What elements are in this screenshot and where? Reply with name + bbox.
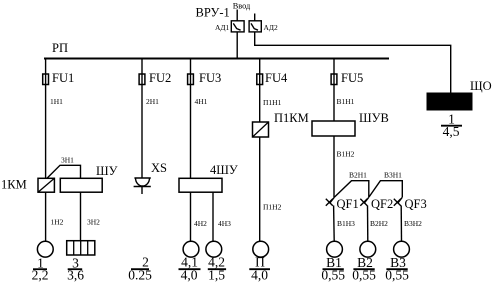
svg-text:ЩО: ЩО xyxy=(470,79,492,93)
svg-text:П1Н2: П1Н2 xyxy=(263,203,282,212)
svg-text:4,5: 4,5 xyxy=(443,124,460,139)
svg-text:FU3: FU3 xyxy=(199,71,221,85)
breaker АД1 xyxy=(231,21,244,32)
svg-text:FU4: FU4 xyxy=(265,71,288,85)
wire branch В2Н1 xyxy=(334,181,369,198)
svg-text:П1КМ: П1КМ xyxy=(274,111,309,125)
contactor П1КМ xyxy=(253,122,269,137)
contactor 1КМ xyxy=(38,178,54,192)
wire QF3 to motor В3 xyxy=(400,206,402,242)
svg-text:1Н2: 1Н2 xyxy=(51,218,64,227)
svg-text:FU5: FU5 xyxy=(341,71,363,85)
svg-text:3Н2: 3Н2 xyxy=(87,218,100,227)
svg-text:0.25: 0.25 xyxy=(128,268,152,283)
breaker АД2 xyxy=(249,21,261,32)
svg-text:1КМ: 1КМ xyxy=(1,178,27,192)
svg-text:ВРУ-1: ВРУ-1 xyxy=(196,6,230,20)
box ШУВ xyxy=(312,121,355,136)
svg-text:FU2: FU2 xyxy=(149,71,171,85)
svg-text:0,55: 0,55 xyxy=(321,268,345,283)
wire FU3 branch xyxy=(190,59,192,179)
svg-text:0,55: 0,55 xyxy=(385,268,409,283)
svg-text:В2Н1: В2Н1 xyxy=(349,171,367,180)
wire QF2 to motor В2 xyxy=(367,206,369,242)
wire ШУВ output В1Н2 xyxy=(333,136,335,197)
motor 4.1 xyxy=(183,241,199,257)
svg-text:4,0: 4,0 xyxy=(251,268,268,283)
fuse FU5 xyxy=(331,74,337,85)
label rating 1/2,2 xyxy=(32,255,49,282)
svg-text:1Н1: 1Н1 xyxy=(50,97,63,106)
svg-text:QF2: QF2 xyxy=(371,197,393,211)
wire АД1 to bus РП xyxy=(236,32,238,59)
svg-text:QF1: QF1 xyxy=(337,197,359,211)
svg-text:4Н1: 4Н1 xyxy=(195,97,208,106)
svg-text:АД2: АД2 xyxy=(264,23,279,32)
svg-text:1,5: 1,5 xyxy=(208,268,225,283)
label rating 2/0.25 xyxy=(128,255,152,283)
motor В2 xyxy=(360,241,376,257)
svg-text:Ввод: Ввод xyxy=(233,2,251,11)
svg-text:РП: РП xyxy=(52,41,68,55)
label rating 4,2/1,5 xyxy=(208,255,226,283)
wire FU2 branch xyxy=(141,59,143,179)
svg-text:В2Н2: В2Н2 xyxy=(370,219,388,228)
wire QF1 to motor В1 xyxy=(333,206,336,242)
wire branch 3Н1 to ШУ xyxy=(47,165,81,178)
box 4ШУ xyxy=(179,178,222,192)
svg-text:XS: XS xyxy=(151,161,167,175)
wire АД2 to panel ЩО xyxy=(255,32,451,93)
wire 4ШУ output to motor 4.2 xyxy=(212,192,214,241)
svg-text:FU1: FU1 xyxy=(52,71,74,85)
svg-text:ШУВ: ШУВ xyxy=(359,111,389,125)
motor В1 xyxy=(327,241,343,257)
breaker QF2 xyxy=(360,197,369,206)
fuse FU3 xyxy=(188,74,194,85)
wire FU5 branch xyxy=(333,59,335,122)
svg-text:В3Н1: В3Н1 xyxy=(384,171,402,180)
wire FU1 branch xyxy=(45,59,47,179)
wire FU4 branch xyxy=(259,59,261,123)
svg-text:3Н1: 3Н1 xyxy=(61,156,74,165)
wire feed stub into АД1 xyxy=(236,10,238,22)
svg-text:4ШУ: 4ШУ xyxy=(210,163,238,177)
breaker QF3 xyxy=(394,197,403,206)
label rating В3/0,55 xyxy=(385,255,409,283)
breaker QF1 xyxy=(326,197,335,206)
svg-text:В3Н2: В3Н2 xyxy=(404,219,422,228)
label rating 1/4,5 xyxy=(441,112,462,139)
svg-text:В1Н2: В1Н2 xyxy=(337,150,355,159)
svg-text:4Н2: 4Н2 xyxy=(194,219,207,228)
svg-text:3,6: 3,6 xyxy=(67,268,84,283)
motor 4.2 xyxy=(206,241,222,257)
motor 1 xyxy=(37,241,53,257)
svg-text:2Н1: 2Н1 xyxy=(146,97,159,106)
svg-text:0,55: 0,55 xyxy=(352,268,376,283)
wire 1КМ to motor 1 xyxy=(45,192,47,241)
label rating 3/3,6 xyxy=(67,255,84,282)
heater 3 xyxy=(67,241,95,255)
label rating 4,1/4,0 xyxy=(179,255,201,283)
wire 4ШУ output to motor 4.1 xyxy=(190,192,192,241)
svg-text:В1Н1: В1Н1 xyxy=(337,97,355,106)
svg-text:4Н3: 4Н3 xyxy=(218,219,231,228)
svg-text:2,2: 2,2 xyxy=(32,268,49,283)
motor П xyxy=(253,241,269,257)
label rating В2/0,55 xyxy=(352,255,376,283)
svg-text:АД1: АД1 xyxy=(215,23,230,32)
wire ШУ to heater 3 xyxy=(80,192,82,241)
svg-text:ШУ: ШУ xyxy=(96,164,118,178)
bus РП xyxy=(44,58,389,60)
svg-text:П1Н1: П1Н1 xyxy=(263,98,282,107)
label rating В1/0,55 xyxy=(321,255,345,283)
wire branch В3Н1 xyxy=(369,181,402,198)
fuse FU4 xyxy=(257,74,263,85)
wire П1КМ to motor П xyxy=(259,137,261,241)
svg-text:В1Н3: В1Н3 xyxy=(337,219,355,228)
socket XS xyxy=(134,178,151,194)
fuse FU1 xyxy=(43,74,49,85)
svg-text:4,0: 4,0 xyxy=(181,268,198,283)
fuse FU2 xyxy=(139,74,145,85)
wire feed stub into АД2 xyxy=(254,14,256,22)
motor В3 xyxy=(394,241,410,257)
label rating П/4,0 xyxy=(249,255,270,283)
panel ЩО xyxy=(427,93,472,110)
svg-text:QF3: QF3 xyxy=(405,197,427,211)
box ШУ xyxy=(60,178,102,192)
